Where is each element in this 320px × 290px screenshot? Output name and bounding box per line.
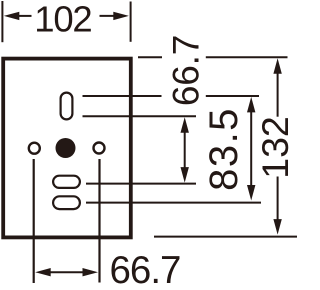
svg-text:102: 102 [34, 0, 91, 40]
arrowheads [4, 12, 282, 277]
132 dim shaft lower [277, 177, 279, 225]
top dim arrow left [4, 12, 19, 20]
right mounting hole [94, 143, 105, 154]
svg-text:83.5: 83.5 [202, 107, 246, 191]
132 dim arrow down [273, 219, 281, 235]
bottom dim left extension [33, 159, 35, 283]
ext line from slot bottom [83, 115, 197, 117]
83.5 dim shaft [250, 108, 252, 190]
plate outline [3, 59, 131, 238]
left mounting hole [29, 143, 40, 154]
ext line from slot top [83, 95, 162, 97]
top dim extension tick left [1, 1, 3, 42]
svg-text:66.7: 66.7 [110, 249, 181, 290]
ext line from upper oval [86, 183, 196, 185]
bottom dim shaft [48, 271, 85, 273]
svg-text:66.7: 66.7 [166, 35, 207, 106]
svg-text:132: 132 [254, 116, 296, 179]
132 dim arrow up [273, 58, 281, 73]
66.7 right dim shaft [184, 128, 186, 172]
top dim arrow right [113, 12, 129, 20]
66.7 right dim arrow down [181, 167, 189, 183]
132 dim shaft upper [277, 70, 279, 117]
bottom dim right extension [98, 159, 100, 283]
83.5 dim arrow down [247, 185, 255, 201]
bottom dim arrow right [83, 268, 99, 276]
top dim line right shaft [100, 15, 117, 17]
center knockout hole (filled) [56, 138, 76, 158]
66.7 right dim arrow up [181, 117, 189, 133]
upper horizontal slot [53, 176, 80, 188]
lower horizontal slot [53, 196, 80, 209]
ext line from lower oval [86, 202, 261, 204]
vertical slot [61, 93, 73, 120]
top dim line left shaft [16, 15, 32, 17]
ext line from plate top edge (right) [138, 56, 162, 58]
top dim extension tick right [130, 2, 132, 42]
ext line from plate bottom edge (right) [154, 236, 297, 238]
83.5 dim arrow up [247, 97, 255, 113]
bottom dim arrow left [35, 268, 51, 276]
